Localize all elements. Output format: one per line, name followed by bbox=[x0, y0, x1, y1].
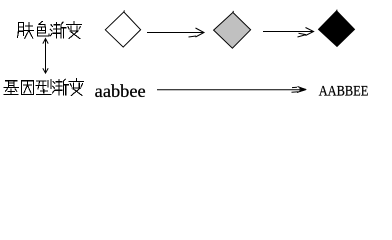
text 肤色渐变 (skin colour gradient label) bbox=[17, 22, 81, 39]
svg-text:AABBEE: AABBEE bbox=[319, 84, 369, 100]
tick on black diamond apex bbox=[336, 10, 338, 11]
tick on gray diamond apex bbox=[232, 11, 234, 13]
glyph 色 bbox=[37, 22, 48, 36]
text 基因型渐变 (genotype gradient label) bbox=[4, 79, 84, 96]
tick on white diamond apex bbox=[123, 10, 126, 12]
glyph 渐 bbox=[50, 22, 66, 38]
arrow 1 bbox=[147, 28, 204, 37]
vertical double arrow bbox=[43, 39, 48, 74]
diamond gray (medium skin) bbox=[214, 12, 251, 48]
glyph 型 bbox=[36, 80, 51, 95]
glyph 因 bbox=[21, 81, 33, 95]
glyph 渐 bbox=[53, 79, 69, 95]
svg-text:aabbee: aabbee bbox=[95, 81, 146, 101]
glyph 肤 bbox=[17, 23, 33, 39]
glyph 变 bbox=[69, 79, 84, 96]
diamond black (dark skin) bbox=[319, 11, 355, 47]
long genotype arrow bbox=[157, 87, 306, 93]
arrow 2 double-headed bbox=[263, 28, 314, 38]
diamond white (light skin) bbox=[105, 12, 140, 47]
glyph 基 bbox=[4, 81, 19, 95]
glyph 变 bbox=[67, 22, 82, 39]
